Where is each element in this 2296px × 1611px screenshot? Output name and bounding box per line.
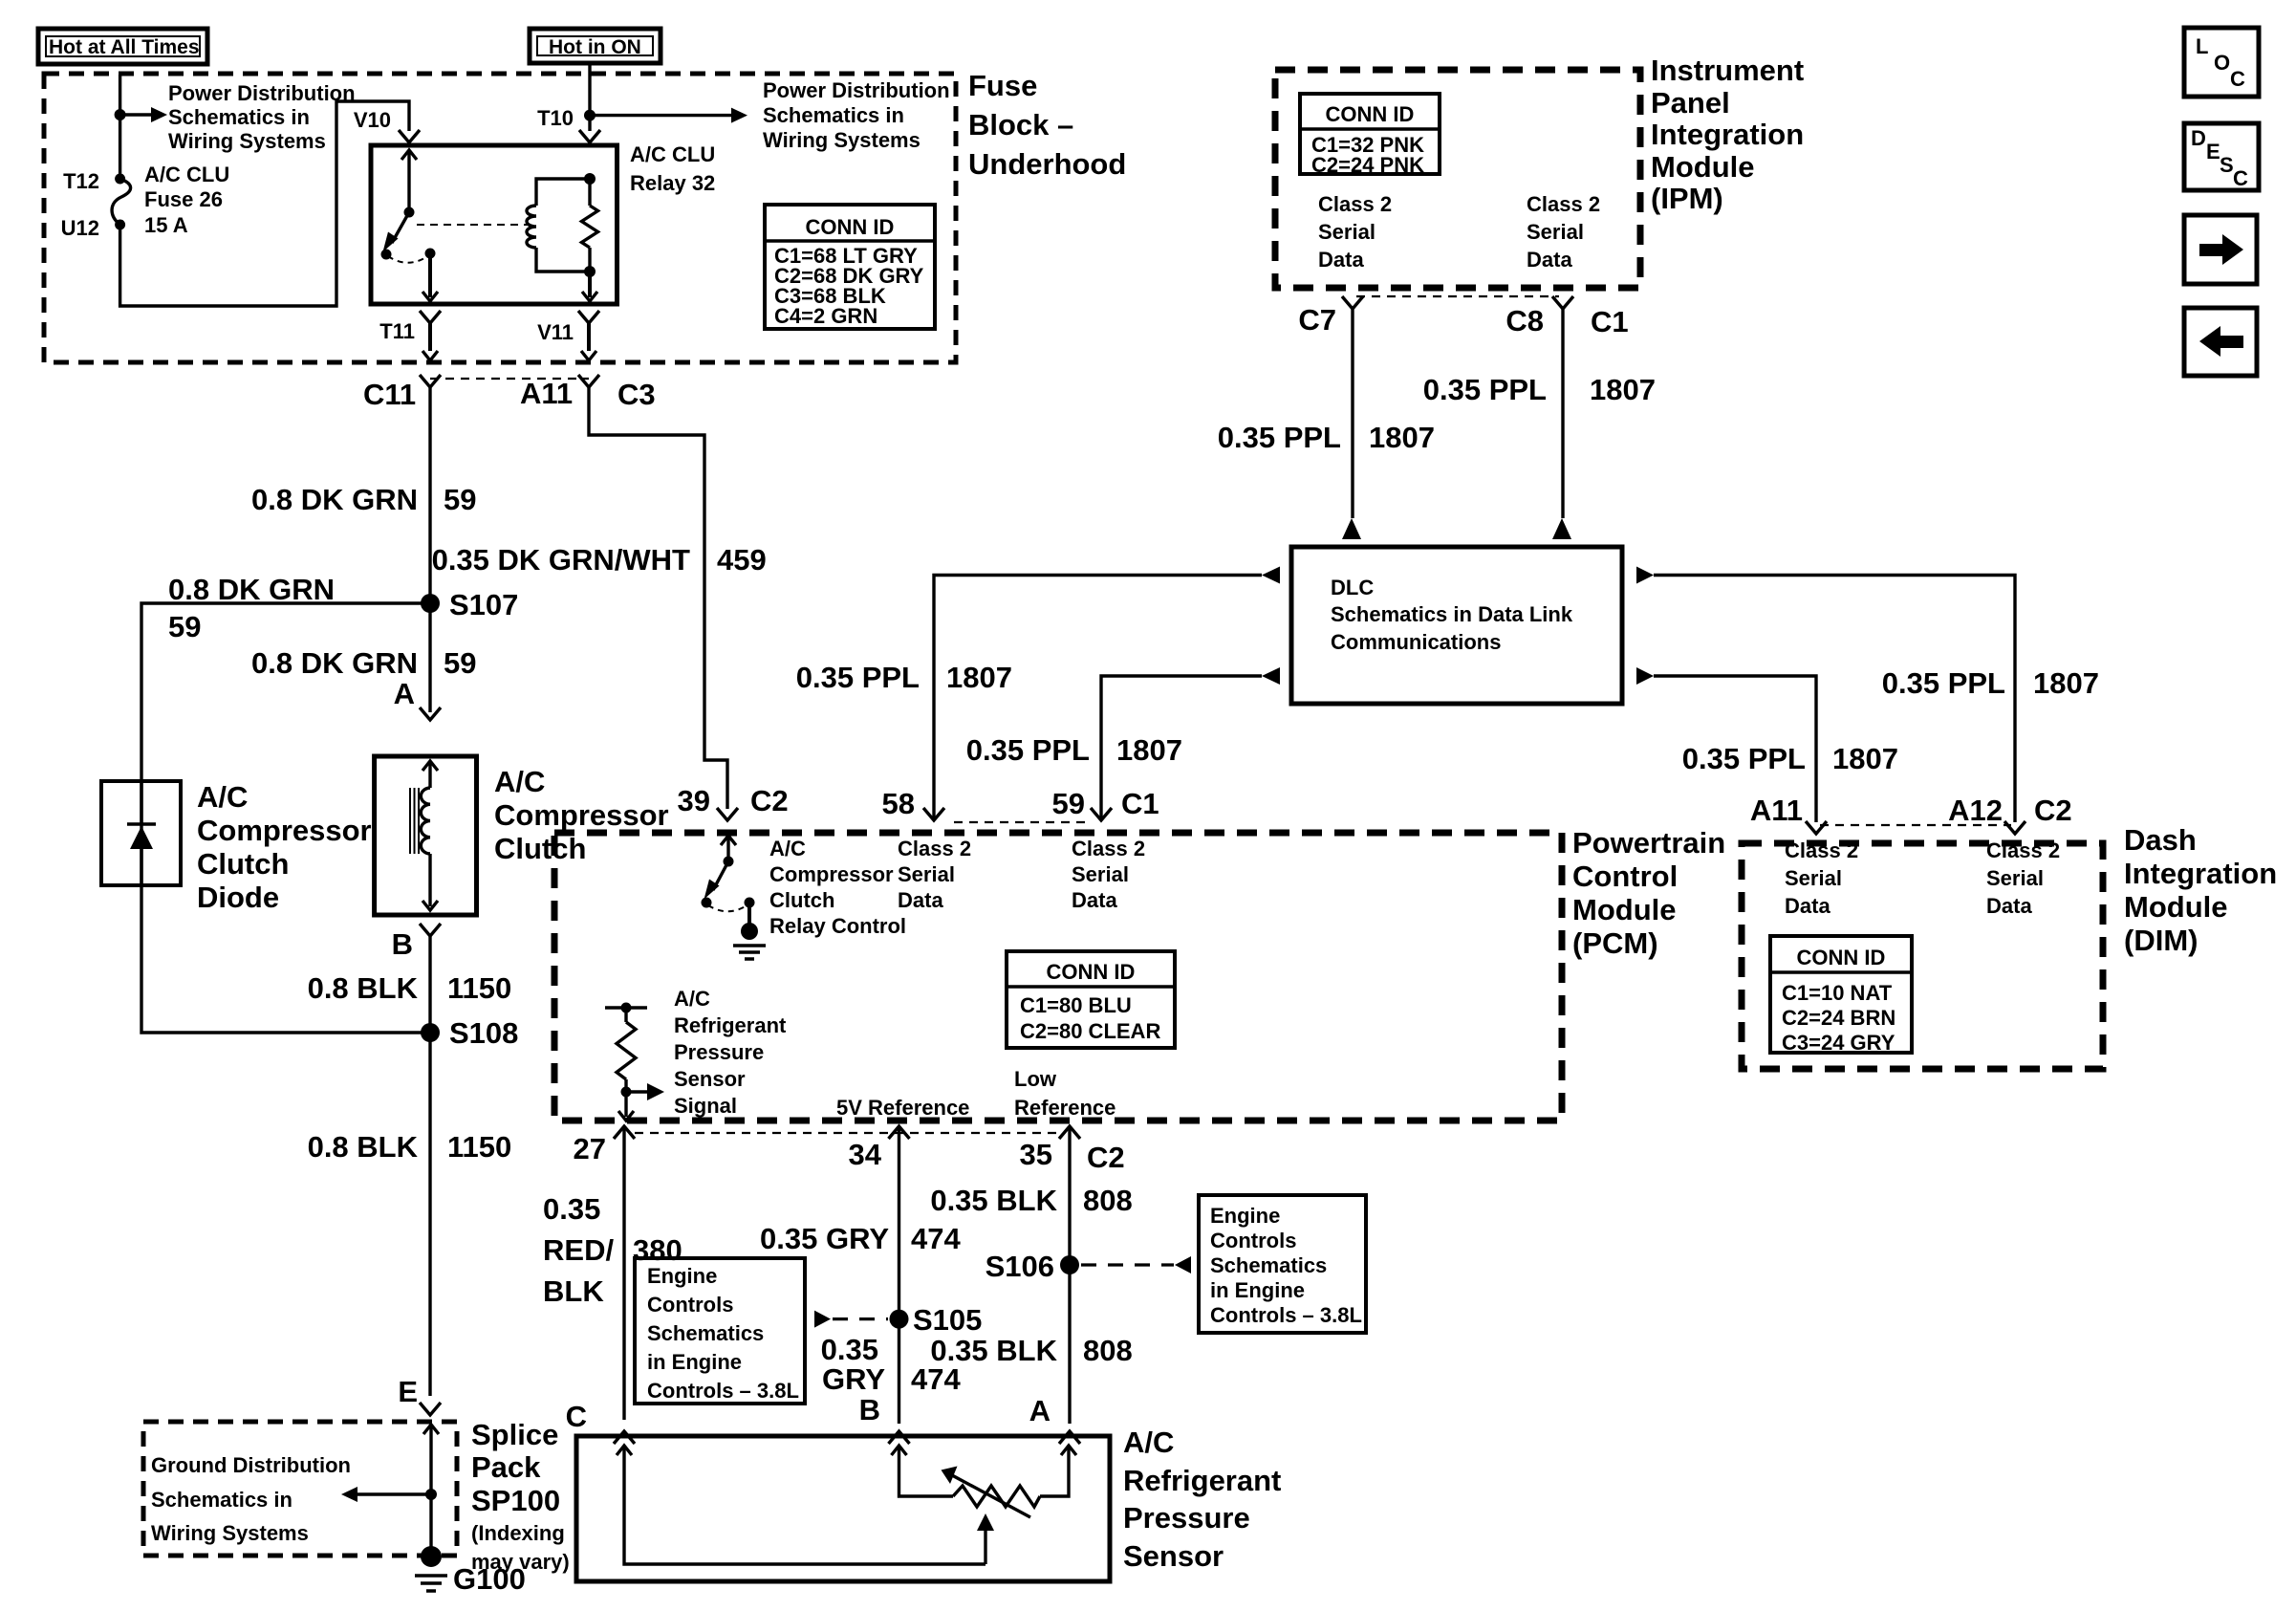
svg-text:RED/: RED/ <box>543 1233 614 1267</box>
svg-text:CONN ID: CONN ID <box>1047 960 1136 984</box>
svg-text:0.35 BLK: 0.35 BLK <box>930 1334 1057 1367</box>
svg-text:GRY: GRY <box>822 1362 885 1396</box>
svg-text:C7: C7 <box>1298 303 1336 337</box>
svg-text:Wiring Systems: Wiring Systems <box>168 129 326 153</box>
svg-text:A/C: A/C <box>1123 1426 1174 1459</box>
svg-text:C: C <box>2230 67 2245 91</box>
svg-text:C1=10 NAT: C1=10 NAT <box>1782 981 1893 1005</box>
svg-text:35: 35 <box>1020 1138 1052 1171</box>
svg-text:0.35 BLK: 0.35 BLK <box>930 1184 1057 1217</box>
svg-text:A: A <box>394 677 415 710</box>
svg-text:A: A <box>1029 1394 1051 1427</box>
svg-text:0.35: 0.35 <box>543 1192 600 1226</box>
svg-text:E: E <box>2206 140 2220 163</box>
svg-text:(DIM): (DIM) <box>2124 924 2198 957</box>
svg-text:Module: Module <box>1572 893 1677 926</box>
svg-text:Powertrain: Powertrain <box>1572 826 1725 860</box>
svg-text:Signal: Signal <box>674 1094 737 1118</box>
svg-text:Low: Low <box>1014 1067 1057 1091</box>
svg-text:1807: 1807 <box>1116 733 1182 767</box>
svg-text:1150: 1150 <box>447 971 511 1005</box>
svg-text:D: D <box>2191 126 2206 150</box>
svg-text:may vary): may vary) <box>471 1550 570 1574</box>
svg-text:A/C CLU: A/C CLU <box>630 142 715 166</box>
svg-text:Data: Data <box>898 888 943 912</box>
svg-text:(PCM): (PCM) <box>1572 926 1658 960</box>
svg-text:Refrigerant: Refrigerant <box>1123 1464 1281 1497</box>
svg-text:T10: T10 <box>537 106 574 130</box>
svg-text:Relay 32: Relay 32 <box>630 171 715 195</box>
svg-text:Class 2: Class 2 <box>1986 838 2060 862</box>
svg-text:Schematics in: Schematics in <box>168 105 310 129</box>
svg-text:C4=2 GRN: C4=2 GRN <box>774 304 877 328</box>
svg-text:Panel: Panel <box>1651 86 1730 120</box>
svg-text:Fuse: Fuse <box>968 69 1037 102</box>
svg-text:0.35: 0.35 <box>821 1333 878 1366</box>
svg-text:A11: A11 <box>1750 794 1803 827</box>
svg-text:Serial: Serial <box>1527 220 1584 244</box>
svg-text:0.35 PPL: 0.35 PPL <box>1882 666 2005 700</box>
svg-text:Reference: Reference <box>1014 1096 1116 1120</box>
svg-text:0.35 PPL: 0.35 PPL <box>1423 373 1547 406</box>
svg-text:Clutch: Clutch <box>769 888 834 912</box>
svg-text:59: 59 <box>444 646 476 680</box>
svg-text:C1: C1 <box>1121 787 1159 820</box>
svg-text:(IPM): (IPM) <box>1651 182 1723 215</box>
svg-text:0.8 DK GRN: 0.8 DK GRN <box>168 573 335 606</box>
svg-text:808: 808 <box>1083 1184 1133 1217</box>
svg-text:S107: S107 <box>449 588 518 621</box>
svg-text:C1=80 BLU: C1=80 BLU <box>1020 993 1132 1017</box>
svg-text:Clutch: Clutch <box>494 832 586 865</box>
svg-text:474: 474 <box>911 1222 961 1255</box>
svg-text:0.35 PPL: 0.35 PPL <box>796 661 920 694</box>
svg-text:1807: 1807 <box>1590 373 1656 406</box>
svg-text:Data: Data <box>1986 894 2032 918</box>
svg-text:C2: C2 <box>2034 794 2072 827</box>
svg-text:Controls – 3.8L: Controls – 3.8L <box>1210 1303 1362 1327</box>
svg-text:59: 59 <box>444 483 476 516</box>
svg-text:Schematics in Data Link: Schematics in Data Link <box>1331 602 1573 626</box>
svg-text:5V Reference: 5V Reference <box>836 1096 969 1120</box>
svg-text:S: S <box>2220 153 2234 177</box>
svg-text:Engine: Engine <box>647 1264 717 1288</box>
svg-text:BLK: BLK <box>543 1274 604 1308</box>
svg-text:Dash: Dash <box>2124 823 2197 857</box>
svg-text:Hot at All Times: Hot at All Times <box>49 36 200 58</box>
svg-text:A/C: A/C <box>674 987 710 1011</box>
svg-text:1807: 1807 <box>946 661 1012 694</box>
svg-text:Pressure: Pressure <box>1123 1501 1250 1535</box>
svg-text:A11: A11 <box>520 377 573 410</box>
svg-text:Pack: Pack <box>471 1450 541 1484</box>
svg-text:Schematics: Schematics <box>647 1321 764 1345</box>
svg-text:C2=24 BRN: C2=24 BRN <box>1782 1006 1895 1030</box>
svg-text:Relay Control: Relay Control <box>769 914 906 938</box>
svg-text:459: 459 <box>717 543 767 577</box>
svg-text:Engine: Engine <box>1210 1204 1280 1228</box>
svg-text:1807: 1807 <box>1832 742 1898 775</box>
svg-text:27: 27 <box>574 1132 606 1165</box>
svg-text:Schematics in: Schematics in <box>151 1488 292 1512</box>
svg-text:Class 2: Class 2 <box>1318 192 1392 216</box>
svg-text:A/C: A/C <box>197 780 248 814</box>
svg-text:Communications: Communications <box>1331 630 1501 654</box>
svg-text:0.35 PPL: 0.35 PPL <box>1682 742 1806 775</box>
svg-text:L: L <box>2196 34 2208 58</box>
svg-text:S105: S105 <box>913 1303 982 1337</box>
svg-text:380: 380 <box>633 1233 682 1267</box>
svg-text:Hot in ON: Hot in ON <box>549 36 641 58</box>
svg-text:34: 34 <box>849 1138 882 1171</box>
svg-text:Serial: Serial <box>898 862 955 886</box>
svg-text:Pressure: Pressure <box>674 1040 764 1064</box>
svg-text:Schematics: Schematics <box>1210 1253 1327 1277</box>
svg-text:CONN ID: CONN ID <box>1326 102 1415 126</box>
svg-text:Class 2: Class 2 <box>898 837 971 860</box>
svg-text:C: C <box>2233 166 2248 190</box>
svg-text:Compressor: Compressor <box>197 814 372 847</box>
svg-text:Controls: Controls <box>647 1293 733 1317</box>
svg-text:0.8 DK GRN: 0.8 DK GRN <box>251 646 418 680</box>
svg-text:S106: S106 <box>986 1250 1054 1283</box>
svg-text:Schematics in: Schematics in <box>763 103 904 127</box>
svg-text:V11: V11 <box>537 320 574 344</box>
svg-text:1150: 1150 <box>447 1130 511 1164</box>
svg-text:A/C CLU: A/C CLU <box>144 163 229 186</box>
svg-text:Power Distribution: Power Distribution <box>168 81 356 105</box>
svg-text:C2: C2 <box>750 784 789 817</box>
svg-text:C8: C8 <box>1505 304 1544 337</box>
svg-text:A/C: A/C <box>769 837 806 860</box>
svg-text:C3: C3 <box>617 378 656 411</box>
svg-text:A12: A12 <box>1948 794 2003 827</box>
svg-text:CONN ID: CONN ID <box>806 215 895 239</box>
svg-text:Data: Data <box>1785 894 1830 918</box>
svg-text:Compressor: Compressor <box>769 862 894 886</box>
svg-text:C1: C1 <box>1591 305 1629 338</box>
svg-text:Wiring Systems: Wiring Systems <box>763 128 921 152</box>
svg-text:Serial: Serial <box>1318 220 1375 244</box>
svg-text:Sensor: Sensor <box>674 1067 746 1091</box>
svg-text:59: 59 <box>1052 787 1085 820</box>
svg-text:Controls – 3.8L: Controls – 3.8L <box>647 1379 799 1403</box>
svg-text:in Engine: in Engine <box>647 1350 742 1374</box>
svg-text:59: 59 <box>168 610 201 643</box>
svg-text:DLC: DLC <box>1331 576 1374 599</box>
svg-text:O: O <box>2214 51 2230 75</box>
svg-text:Compressor: Compressor <box>494 798 669 832</box>
svg-text:Underhood: Underhood <box>968 147 1126 181</box>
svg-text:0.8 BLK: 0.8 BLK <box>308 1130 419 1164</box>
svg-text:C: C <box>566 1400 587 1433</box>
svg-text:C3=24 GRY: C3=24 GRY <box>1782 1031 1895 1055</box>
svg-text:0.8 DK GRN: 0.8 DK GRN <box>251 483 418 516</box>
svg-text:B: B <box>859 1393 880 1426</box>
svg-text:Serial: Serial <box>1072 862 1129 886</box>
svg-text:Data: Data <box>1318 248 1364 272</box>
svg-text:39: 39 <box>678 784 710 817</box>
svg-text:T11: T11 <box>379 319 415 343</box>
svg-text:Control: Control <box>1572 860 1678 893</box>
svg-text:Module: Module <box>2124 890 2228 924</box>
svg-text:808: 808 <box>1083 1334 1133 1367</box>
svg-text:58: 58 <box>882 787 915 820</box>
svg-text:C2=24 PNK: C2=24 PNK <box>1311 153 1424 177</box>
svg-text:Wiring Systems: Wiring Systems <box>151 1521 309 1545</box>
svg-text:V10: V10 <box>354 108 391 132</box>
svg-text:Integration: Integration <box>1651 118 1804 151</box>
svg-text:0.35 PPL: 0.35 PPL <box>1218 421 1341 454</box>
svg-text:Sensor: Sensor <box>1123 1539 1224 1573</box>
svg-text:C2=80 CLEAR: C2=80 CLEAR <box>1020 1019 1160 1043</box>
svg-text:CONN ID: CONN ID <box>1797 946 1886 969</box>
svg-text:Data: Data <box>1527 248 1572 272</box>
svg-text:Data: Data <box>1072 888 1117 912</box>
svg-text:S108: S108 <box>449 1016 518 1050</box>
svg-text:Serial: Serial <box>1986 866 2044 890</box>
svg-text:Instrument: Instrument <box>1651 54 1804 87</box>
svg-text:Refrigerant: Refrigerant <box>674 1013 787 1037</box>
svg-text:Block –: Block – <box>968 108 1073 142</box>
svg-text:A/C: A/C <box>494 765 545 798</box>
svg-text:Module: Module <box>1651 150 1755 184</box>
svg-text:Splice: Splice <box>471 1418 558 1451</box>
svg-text:Power Distribution: Power Distribution <box>763 78 950 102</box>
svg-text:Serial: Serial <box>1785 866 1842 890</box>
svg-text:0.35 PPL: 0.35 PPL <box>966 733 1090 767</box>
svg-text:Class 2: Class 2 <box>1072 837 1145 860</box>
svg-text:C2: C2 <box>1087 1141 1125 1174</box>
svg-text:Class 2: Class 2 <box>1527 192 1600 216</box>
svg-text:C11: C11 <box>363 378 416 411</box>
svg-text:Clutch: Clutch <box>197 847 289 881</box>
svg-text:Fuse 26: Fuse 26 <box>144 187 223 211</box>
svg-text:Diode: Diode <box>197 881 279 914</box>
svg-text:E: E <box>398 1375 418 1408</box>
svg-text:Controls: Controls <box>1210 1229 1296 1252</box>
svg-text:1807: 1807 <box>1369 421 1435 454</box>
svg-text:Integration: Integration <box>2124 857 2277 890</box>
svg-text:0.35 GRY: 0.35 GRY <box>760 1222 889 1255</box>
svg-text:0.35 DK GRN/WHT: 0.35 DK GRN/WHT <box>432 543 690 577</box>
svg-text:T12: T12 <box>63 169 99 193</box>
svg-text:Ground Distribution: Ground Distribution <box>151 1453 351 1477</box>
svg-text:SP100: SP100 <box>471 1484 560 1517</box>
svg-text:1807: 1807 <box>2033 666 2099 700</box>
svg-text:15 A: 15 A <box>144 213 188 237</box>
svg-text:B: B <box>392 927 413 961</box>
svg-text:474: 474 <box>911 1362 961 1396</box>
svg-text:(Indexing: (Indexing <box>471 1521 565 1545</box>
svg-text:0.8 BLK: 0.8 BLK <box>308 971 419 1005</box>
svg-text:Class 2: Class 2 <box>1785 838 1858 862</box>
svg-text:U12: U12 <box>61 216 99 240</box>
svg-text:in Engine: in Engine <box>1210 1278 1305 1302</box>
